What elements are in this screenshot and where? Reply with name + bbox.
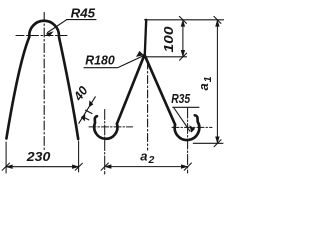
wire arch profile (front view, left figure) [6,21,78,139]
extension line left (230) [5,142,7,173]
dimension line a1 [216,20,218,144]
right hook horizontal centerline [172,126,212,128]
right leg with hook [145,55,200,140]
vertical centerline of left figure [43,13,45,150]
svg-text:2: 2 [148,154,155,166]
arrow right of 230 [72,165,79,169]
svg-text:a: a [196,83,211,90]
svg-text:R180: R180 [85,53,115,68]
dimension line 230 [6,166,79,168]
horizontal centerline of arc R45 [16,35,67,37]
leader R180 [84,56,143,68]
apex level extension line (100) [146,56,187,58]
svg-text:1: 1 [202,76,214,82]
leader R35 [173,106,199,108]
dimension 40: dim line [79,97,96,124]
leader R45 [48,20,67,33]
right hook vertical centerline + a2 extension [187,108,189,173]
arrow left of a2 [104,164,111,168]
svg-text:R45: R45 [71,5,96,20]
arrow top of a1 [215,19,219,26]
arrow bottom of a1 [215,137,219,144]
wire prong profile (side view, right figure): top stem [145,20,146,55]
arrow/tick marks of 40 [89,100,94,107]
vertical centerline of right figure [147,61,149,150]
left hook horizontal centerline [89,126,133,128]
extension line right (230) [78,141,80,172]
arrow right of a2 [181,164,188,168]
svg-text:R35: R35 [171,91,191,106]
top extension line (100 / a1) [145,19,224,21]
label a2 [140,148,154,166]
left hook vertical centerline + a2 extension [104,110,106,175]
svg-text:100: 100 [161,26,176,53]
svg-text:230: 230 [26,149,51,164]
arrow bottom of 100 [181,50,185,57]
arrow top of 100 [181,19,185,26]
dimension line 100 [182,20,184,57]
svg-text:a: a [140,148,147,163]
arrow left of 230 [5,165,12,169]
label a1 (rotated) [196,76,214,90]
dimension line a2 [105,166,188,168]
left leg with hook [94,55,144,139]
bottom extension line (a1) [193,142,223,144]
